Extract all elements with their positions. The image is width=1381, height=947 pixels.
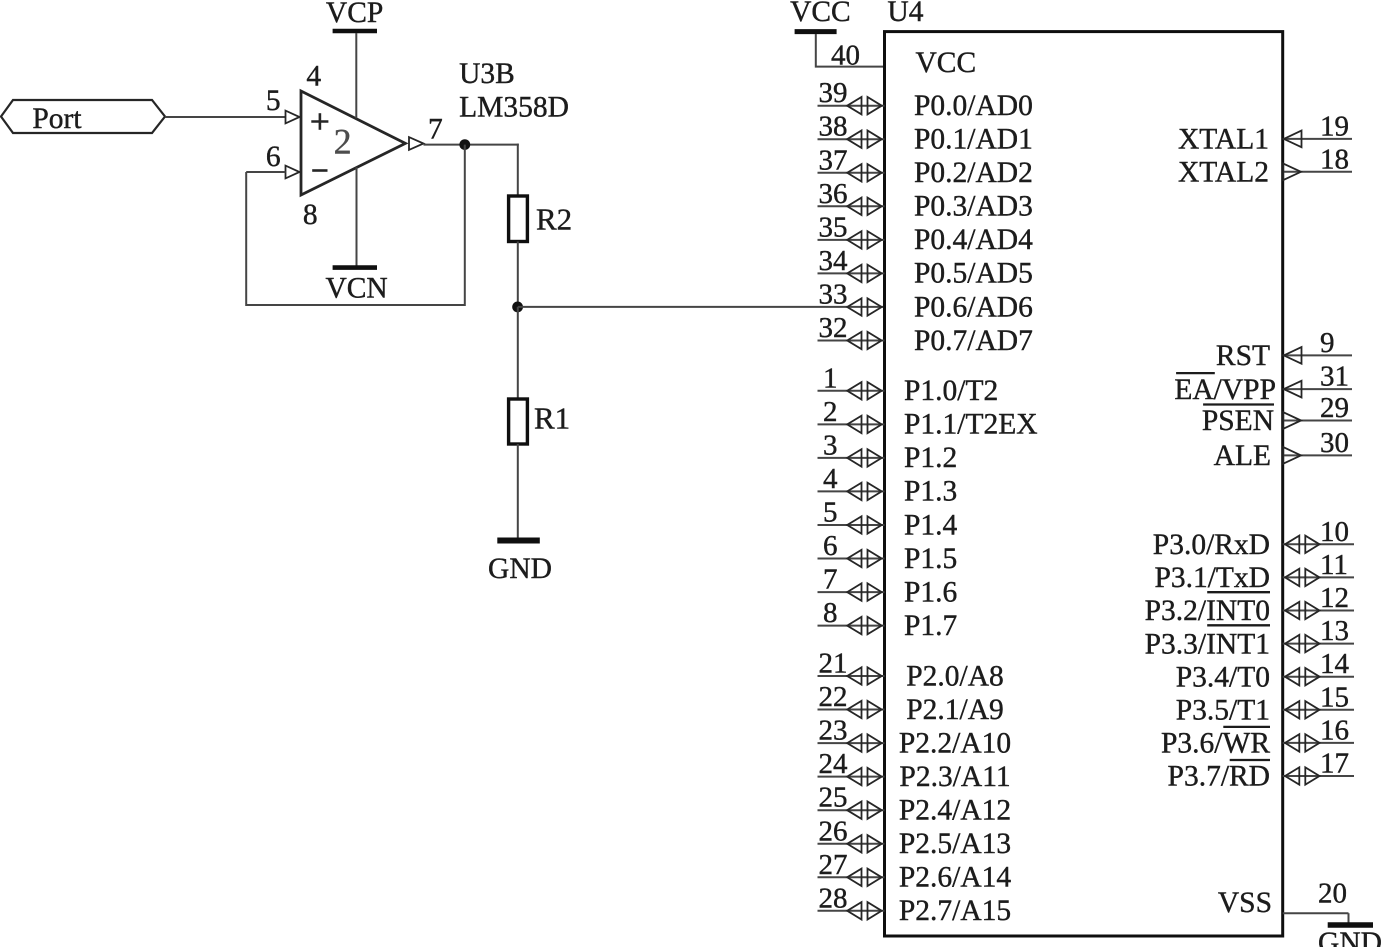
pin 6 P1.5	[818, 558, 885, 560]
power VCC bar	[795, 29, 837, 34]
pin 12 P3.2/INT0	[1283, 610, 1354, 612]
wire Port to op-amp + input	[165, 116, 286, 118]
svg-text:2: 2	[334, 122, 352, 162]
svg-text:13: 13	[1320, 615, 1349, 647]
svg-text:EA/VPP: EA/VPP	[1174, 374, 1276, 406]
pin 37 P0.2/AD2	[818, 172, 885, 174]
pin 17 P3.7/RD	[1283, 775, 1354, 777]
svg-text:VCC: VCC	[916, 47, 977, 79]
svg-text:P0.5/AD5: P0.5/AD5	[914, 258, 1033, 290]
pin 5 P1.4	[818, 524, 885, 526]
svg-text:14: 14	[1320, 648, 1350, 680]
svg-text:2: 2	[823, 396, 838, 428]
pin 16 P3.6/WR	[1283, 742, 1354, 744]
svg-text:34: 34	[819, 245, 849, 277]
pin 8 P1.7	[818, 625, 885, 627]
svg-text:P3.1/TxD: P3.1/TxD	[1154, 562, 1270, 594]
pin 20 VSS	[1283, 912, 1349, 914]
svg-text:XTAL1: XTAL1	[1178, 124, 1269, 156]
svg-text:U3B: U3B	[459, 58, 515, 90]
svg-text:31: 31	[1320, 361, 1349, 393]
pin 25 P2.4/A12	[818, 809, 885, 811]
svg-text:17: 17	[1320, 748, 1349, 780]
pin 22 P2.1/A9	[818, 709, 885, 711]
ground bar	[497, 538, 540, 544]
pin 31 EA/VPP	[1283, 388, 1352, 390]
svg-text:36: 36	[819, 178, 848, 210]
svg-text:XTAL2: XTAL2	[1178, 157, 1269, 189]
svg-text:P3.7/RD: P3.7/RD	[1168, 761, 1270, 793]
svg-text:6: 6	[823, 530, 838, 562]
svg-text:10: 10	[1320, 516, 1349, 548]
svg-text:1: 1	[823, 362, 838, 394]
svg-text:P2.3/A11: P2.3/A11	[899, 761, 1010, 793]
pin 14 P3.4/T0	[1283, 676, 1354, 678]
svg-text:P0.1/AD1: P0.1/AD1	[914, 124, 1033, 156]
svg-text:5: 5	[266, 85, 281, 117]
svg-text:P0.7/AD7: P0.7/AD7	[914, 325, 1033, 357]
svg-text:32: 32	[819, 312, 848, 344]
svg-text:19: 19	[1320, 110, 1349, 142]
pin 18 XTAL2	[1283, 171, 1352, 173]
node divider junction dot	[512, 302, 523, 313]
svg-text:P0.2/AD2: P0.2/AD2	[914, 157, 1033, 189]
op-amp output pin triangle	[409, 137, 424, 150]
svg-text:P2.7/A15: P2.7/A15	[899, 895, 1011, 927]
svg-text:27: 27	[819, 849, 848, 881]
wire pin 20 to ground	[1348, 913, 1350, 922]
pin 19 XTAL1	[1283, 138, 1352, 140]
svg-text:38: 38	[819, 111, 848, 143]
mcu U4 body	[885, 32, 1283, 936]
svg-text:VCN: VCN	[325, 272, 387, 304]
resistor R1	[509, 399, 528, 444]
svg-text:P1.4: P1.4	[904, 509, 958, 541]
pin 30 ALE	[1283, 454, 1352, 456]
svg-text:8: 8	[823, 597, 838, 629]
power VCN bar	[333, 265, 377, 270]
svg-text:P2.6/A14: P2.6/A14	[899, 862, 1012, 894]
pin 9 RST	[1283, 354, 1352, 356]
pin 4 P1.3	[818, 490, 885, 492]
svg-text:P2.1/A9: P2.1/A9	[906, 694, 1004, 726]
svg-text:P3.0/RxD: P3.0/RxD	[1153, 529, 1270, 561]
svg-text:RST: RST	[1216, 340, 1270, 372]
pin 7 P1.6	[818, 591, 885, 593]
svg-text:22: 22	[819, 681, 848, 713]
wire VCC to pin 40	[816, 34, 885, 67]
pin 33 P0.6/AD6	[847, 298, 861, 315]
pin 35 P0.4/AD4	[818, 239, 885, 241]
wire op-amp output	[424, 144, 519, 146]
pin 10 P3.0/RxD	[1283, 543, 1354, 545]
svg-text:23: 23	[819, 715, 848, 747]
pin 2 P1.1/T2EX	[818, 423, 885, 425]
svg-text:P1.2: P1.2	[904, 442, 957, 474]
svg-text:VCC: VCC	[790, 0, 851, 28]
op-amp + symbol	[311, 120, 328, 123]
svg-text:6: 6	[266, 141, 281, 173]
pin 39 P0.0/AD0	[818, 105, 885, 107]
svg-text:4: 4	[823, 463, 838, 495]
svg-text:P1.6: P1.6	[904, 576, 957, 608]
svg-text:5: 5	[823, 497, 838, 529]
node output junction dot	[459, 139, 470, 150]
op-amp - symbol	[312, 169, 327, 172]
pin 1 P1.0/T2	[818, 390, 885, 392]
svg-text:P2.0/A8: P2.0/A8	[906, 660, 1004, 692]
svg-text:P3.5/T1: P3.5/T1	[1176, 695, 1270, 727]
pin 38 P0.1/AD1	[818, 138, 885, 140]
svg-text:GND: GND	[488, 553, 552, 585]
pin 27 P2.6/A14	[818, 876, 885, 878]
wire divider node to pin 33 P0.6/AD6	[518, 306, 885, 308]
svg-text:P3.3/INT1: P3.3/INT1	[1145, 628, 1270, 660]
svg-text:7: 7	[823, 564, 838, 596]
pin 13 P3.3/INT1	[1283, 643, 1354, 645]
svg-text:20: 20	[1318, 878, 1347, 910]
resistor R2	[509, 196, 528, 242]
svg-text:18: 18	[1320, 143, 1349, 175]
svg-text:37: 37	[819, 144, 848, 176]
svg-text:GND: GND	[1318, 927, 1381, 947]
pin 28 P2.7/A15	[818, 910, 885, 912]
svg-text:P0.3/AD3: P0.3/AD3	[914, 191, 1033, 223]
wire op-amp to VCN	[356, 167, 358, 265]
svg-text:P3.4/T0: P3.4/T0	[1176, 661, 1270, 693]
pin 26 P2.5/A13	[818, 843, 885, 845]
wire R2 to divider node	[517, 242, 519, 308]
svg-text:21: 21	[819, 648, 848, 680]
op-amp U3B inverting input pin triangle	[286, 166, 300, 179]
pin 15 P3.5/T1	[1283, 709, 1354, 711]
wire VCP to op-amp	[355, 33, 357, 118]
svg-text:P3.6/WR: P3.6/WR	[1161, 728, 1270, 760]
pin 21 P2.0/A8	[818, 675, 885, 677]
svg-text:29: 29	[1320, 392, 1349, 424]
svg-text:P0.6/AD6: P0.6/AD6	[914, 291, 1033, 323]
wire R1 to ground	[517, 444, 519, 540]
svg-text:P1.1/T2EX: P1.1/T2EX	[904, 409, 1038, 441]
ground bar at pin 20	[1328, 922, 1373, 928]
pin 36 P0.3/AD3	[818, 205, 885, 207]
wire output to R2	[517, 144, 519, 196]
svg-text:VSS: VSS	[1218, 887, 1272, 919]
svg-text:U4: U4	[887, 0, 923, 28]
svg-text:15: 15	[1320, 681, 1349, 713]
svg-text:35: 35	[819, 211, 848, 243]
svg-text:11: 11	[1320, 549, 1348, 581]
svg-text:33: 33	[819, 279, 848, 311]
wire feedback loop	[246, 145, 465, 305]
pin 11 P3.1/TxD	[1283, 576, 1354, 578]
svg-text:26: 26	[819, 815, 848, 847]
svg-text:39: 39	[819, 77, 848, 109]
pin 23 P2.2/A10	[818, 742, 885, 744]
pin 3 P1.2	[818, 457, 885, 459]
pin 34 P0.5/AD5	[818, 272, 885, 274]
svg-text:ALE: ALE	[1214, 440, 1271, 472]
svg-text:P1.7: P1.7	[904, 610, 957, 642]
wire divider node to R1	[517, 307, 519, 399]
svg-text:12: 12	[1320, 582, 1349, 614]
svg-text:8: 8	[303, 199, 318, 231]
svg-text:R1: R1	[534, 401, 570, 436]
svg-text:P1.3: P1.3	[904, 476, 957, 508]
svg-text:P0.4/AD4: P0.4/AD4	[914, 224, 1033, 256]
node Port (input port flag)	[1, 100, 165, 133]
wire to inverting input	[246, 171, 285, 173]
pin 29 PSEN	[1283, 420, 1352, 422]
svg-text:P3.2/INT0: P3.2/INT0	[1145, 595, 1270, 627]
svg-text:R2: R2	[536, 202, 572, 237]
svg-text:3: 3	[823, 429, 838, 461]
svg-text:4: 4	[306, 60, 321, 92]
svg-text:P1.5: P1.5	[904, 543, 957, 575]
op-amp U3B triangle	[301, 91, 405, 195]
svg-text:7: 7	[428, 114, 443, 146]
svg-text:P0.0/AD0: P0.0/AD0	[914, 90, 1033, 122]
svg-text:9: 9	[1320, 327, 1335, 359]
svg-text:PSEN: PSEN	[1202, 405, 1274, 437]
svg-text:30: 30	[1320, 427, 1349, 459]
svg-text:LM358D: LM358D	[459, 92, 569, 124]
svg-text:28: 28	[819, 882, 848, 914]
svg-text:P2.4/A12: P2.4/A12	[899, 795, 1011, 827]
svg-text:16: 16	[1320, 714, 1349, 746]
svg-text:Port: Port	[32, 103, 82, 135]
svg-text:VCP: VCP	[326, 0, 383, 29]
op-amp U3B non-inverting input pin triangle	[286, 111, 300, 124]
svg-text:P1.0/T2: P1.0/T2	[904, 375, 998, 407]
svg-text:P2.2/A10: P2.2/A10	[899, 727, 1011, 759]
pin 24 P2.3/A11	[818, 776, 885, 778]
power VCP bar	[333, 29, 377, 34]
svg-text:25: 25	[819, 782, 848, 814]
svg-text:P2.5/A13: P2.5/A13	[899, 828, 1011, 860]
svg-text:24: 24	[819, 748, 849, 780]
pin 32 P0.7/AD7	[818, 340, 885, 342]
